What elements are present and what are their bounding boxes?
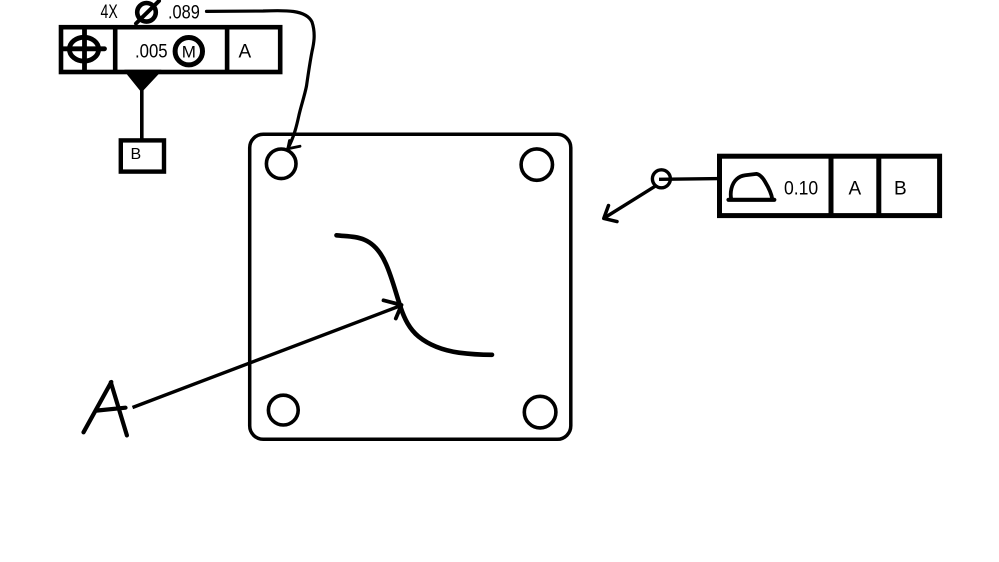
arrowhead of A leader	[384, 300, 402, 318]
profile of a surface symbol (dome)	[729, 198, 775, 202]
svg-text:A: A	[849, 179, 862, 200]
feature control frame FCF1	[61, 25, 280, 74]
leader line from letter A to curve	[133, 306, 402, 408]
leader from .089 note to top-left hole	[207, 11, 315, 149]
svg-text:0.10: 0.10	[784, 179, 818, 200]
svg-text:.005: .005	[135, 42, 168, 63]
arrowhead of plate-pointing arrow	[604, 206, 617, 222]
svg-text:M: M	[182, 42, 196, 61]
svg-text:B: B	[894, 179, 907, 200]
diameter symbol	[136, 1, 159, 24]
hole top-left	[266, 149, 296, 179]
datum B box	[121, 140, 164, 171]
svg-text:.089: .089	[168, 3, 200, 24]
hole bottom-left	[268, 395, 298, 425]
wire from balloon to FCF2	[659, 177, 720, 181]
leader arrowhead at hole	[288, 141, 300, 149]
handwritten letter A	[84, 382, 127, 435]
position symbol	[63, 28, 105, 72]
datum feature triangle (filled)	[125, 71, 161, 92]
svg-text:4X: 4X	[101, 2, 118, 23]
hole bottom-right	[524, 396, 556, 428]
hole top-right	[521, 149, 552, 180]
feature control frame FCF2	[720, 154, 940, 218]
svg-text:B: B	[131, 146, 142, 163]
arrow from balloon toward plate	[604, 186, 655, 218]
modifier circle M	[175, 38, 202, 65]
datum stem wire	[140, 89, 144, 140]
svg-text:A: A	[239, 42, 252, 63]
balloon circle on right leader	[652, 170, 670, 188]
freehand S-curve surface mark on plate	[337, 235, 493, 354]
plate outline (rounded square part)	[250, 134, 571, 439]
